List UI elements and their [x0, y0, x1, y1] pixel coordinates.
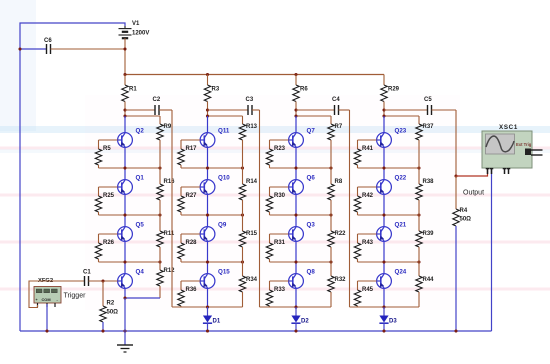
- svg-text:C1: C1: [83, 270, 91, 276]
- svg-text:R39: R39: [423, 231, 435, 237]
- node ground bus junctions: [45, 329, 457, 332]
- svg-text:Q11: Q11: [218, 128, 230, 135]
- resistor R43 (base of Q21): [354, 234, 376, 262]
- resistor R6 (stage feed): [293, 75, 309, 111]
- wire stage1 node row 2: [99, 213, 162, 216]
- resistor R33 (base of Q8): [266, 281, 288, 307]
- transistor Q3: [289, 222, 316, 242]
- svg-text:R23: R23: [274, 146, 286, 152]
- wire XFG2 COM to ground bus (blue): [46, 304, 48, 331]
- wire top-left loop (blue): [20, 23, 125, 331]
- svg-text:C2: C2: [153, 97, 161, 103]
- wire stage1 collector-emitter string: [124, 116, 126, 298]
- resistor R42 (base of Q22): [354, 187, 376, 215]
- resistor R41 (base of Q23): [354, 140, 376, 168]
- svg-text:D1: D1: [213, 319, 221, 325]
- transistor Q24: [377, 269, 407, 289]
- wire stage2 top node: [208, 110, 243, 116]
- wire stage2 bottom node: [172, 305, 243, 308]
- wire R4 to ground bus (blue): [455, 226, 457, 331]
- wire stage1 emitter bottom (blue): [123, 296, 160, 299]
- wire Q4 emitter to ground (blue): [124, 298, 126, 345]
- transistor Q9: [200, 222, 227, 242]
- resistor R30 (base of Q6): [266, 187, 288, 215]
- svg-text:R41: R41: [362, 146, 374, 152]
- svg-text:R13: R13: [246, 124, 258, 130]
- wire C1 to Q4 base: [89, 280, 118, 282]
- diode D1: [203, 307, 221, 331]
- svg-text:V1: V1: [132, 21, 140, 27]
- resistor R1 (stage feed): [122, 75, 138, 111]
- transistor Q5: [118, 222, 145, 242]
- capacitor C5 (output coupling): [384, 97, 456, 176]
- svg-text:Q23: Q23: [395, 128, 407, 135]
- svg-text:R30: R30: [274, 193, 286, 199]
- diode D3: [379, 307, 397, 331]
- wire XFG2 + to C1: [29, 281, 85, 308]
- svg-text:Q7: Q7: [307, 128, 316, 135]
- capacitor C6: [20, 38, 125, 54]
- svg-text:XSC1: XSC1: [499, 124, 518, 131]
- resistor R4 50Ohm (load): [453, 176, 471, 226]
- svg-text:+: +: [36, 298, 38, 302]
- resistor R2 50Ohm (trigger term.): [100, 281, 118, 322]
- svg-text:C4: C4: [332, 97, 340, 103]
- resistor R5 (base of Q2): [95, 140, 117, 168]
- svg-text:Q1: Q1: [136, 175, 145, 182]
- transistor Q6: [289, 175, 316, 195]
- node stage3 top junctions: [294, 108, 297, 117]
- svg-text:R15: R15: [246, 231, 258, 237]
- transistor Q23: [377, 128, 407, 148]
- wire stage3 node row 1: [270, 166, 333, 169]
- wire stage3 top node: [296, 110, 331, 116]
- svg-text:R11: R11: [164, 231, 175, 237]
- wire stage2 node row 2: [181, 213, 244, 216]
- svg-text:R5: R5: [103, 146, 111, 152]
- svg-text:COM: COM: [42, 297, 51, 302]
- svg-text:R7: R7: [335, 124, 343, 130]
- wire stage1 node row 3: [99, 260, 162, 263]
- wire stage4 node row 1: [358, 166, 421, 169]
- oscilloscope XSC1: [482, 124, 543, 174]
- node stage2 top junctions: [206, 108, 209, 117]
- svg-text:C3: C3: [246, 97, 254, 103]
- voltage source V1 1200V: [119, 21, 150, 49]
- wire stage4 node row 2: [358, 213, 421, 216]
- wire stage3 node row 3: [270, 260, 333, 263]
- svg-text:R37: R37: [423, 124, 435, 130]
- svg-text:R44: R44: [423, 277, 435, 283]
- svg-text:Q3: Q3: [307, 222, 316, 229]
- transistor Q10: [200, 175, 230, 195]
- svg-text:R22: R22: [335, 231, 347, 237]
- svg-text:R8: R8: [335, 179, 343, 185]
- svg-text:R25: R25: [103, 193, 115, 199]
- svg-text:Q5: Q5: [136, 222, 145, 229]
- resistor R23 (base of Q7): [266, 140, 288, 168]
- resistor chain R9/R16/R11/R12: [157, 116, 175, 298]
- svg-text:Output: Output: [463, 190, 484, 197]
- wire V1 to bus: [124, 49, 126, 75]
- svg-text:C6: C6: [44, 38, 52, 44]
- wire stage4 top node: [384, 110, 419, 116]
- svg-text:R2: R2: [107, 301, 115, 307]
- svg-text:50Ω: 50Ω: [107, 310, 119, 316]
- diode D2: [291, 307, 309, 331]
- svg-text:R12: R12: [164, 268, 176, 274]
- wire ground bus (blue): [20, 330, 492, 332]
- wire stage4 collector-emitter string: [383, 116, 385, 307]
- transistor Q22: [377, 175, 407, 195]
- resistor chain R7/R8/R22/R32: [328, 116, 346, 307]
- svg-text:R17: R17: [186, 146, 198, 152]
- node stage4 top junctions: [382, 108, 385, 117]
- resistor R26 (base of Q5): [95, 234, 117, 262]
- transistor Q4: [118, 269, 145, 289]
- function generator XFG2: [34, 278, 61, 307]
- svg-text:Q10: Q10: [218, 175, 230, 182]
- svg-text:Q22: Q22: [395, 175, 407, 182]
- transistor Q21: [377, 222, 407, 242]
- wire stage1 top node: [125, 110, 160, 116]
- wire HV bus: [125, 74, 384, 76]
- svg-text:Q4: Q4: [136, 269, 145, 276]
- svg-text:R1: R1: [129, 87, 137, 93]
- svg-text:R42: R42: [362, 193, 374, 199]
- svg-text:Ext Trig: Ext Trig: [516, 142, 532, 147]
- label Output: [463, 190, 484, 197]
- svg-text:Q15: Q15: [218, 269, 230, 276]
- resistor chain R37/R38/R39/R44: [416, 116, 434, 307]
- svg-text:Q24: Q24: [395, 269, 407, 276]
- svg-text:Trigger: Trigger: [64, 293, 87, 300]
- capacitor C1 (trigger coupling): [83, 270, 91, 287]
- svg-text:R45: R45: [362, 287, 374, 293]
- node stage1 top junctions: [123, 108, 126, 117]
- svg-text:R33: R33: [274, 287, 286, 293]
- ground: [117, 345, 133, 352]
- resistor R17 (base of Q11): [178, 140, 200, 168]
- resistor R29 (stage feed): [381, 75, 400, 111]
- wire stage4 bottom node: [350, 305, 420, 308]
- resistor R27 (base of Q10): [178, 187, 200, 215]
- svg-text:R32: R32: [335, 277, 347, 283]
- svg-text:D2: D2: [301, 319, 309, 325]
- wire R2 to ground bus (blue): [102, 322, 104, 331]
- resistor chain R13/R14/R15/R34: [239, 116, 257, 307]
- wire scope A- to ground bus (blue): [491, 169, 493, 332]
- svg-text:C5: C5: [424, 97, 432, 103]
- svg-text:R34: R34: [246, 277, 258, 283]
- resistor R36 (base of Q15): [178, 281, 200, 307]
- resistor R3 (stage feed): [204, 75, 220, 111]
- node output junction: [454, 174, 457, 177]
- svg-text:R4: R4: [460, 208, 468, 214]
- svg-text:R3: R3: [212, 87, 220, 93]
- resistor R31 (base of Q3): [266, 234, 288, 262]
- capacitor C4 (stage coupling): [296, 97, 350, 307]
- svg-text:Q6: Q6: [307, 175, 316, 182]
- wire stage4 node row 3: [358, 260, 421, 263]
- resistor R28 (base of Q9): [178, 234, 200, 262]
- transistor Q7: [289, 128, 316, 148]
- svg-text:Q2: Q2: [136, 128, 145, 135]
- svg-text:R27: R27: [186, 193, 198, 199]
- svg-text:50Ω: 50Ω: [460, 217, 472, 223]
- wire stage1 node row 1: [99, 166, 162, 169]
- svg-text:R9: R9: [164, 124, 172, 130]
- resistor R25 (base of Q1): [95, 187, 117, 215]
- svg-text:R31: R31: [274, 240, 286, 246]
- svg-text:Q9: Q9: [218, 222, 227, 229]
- wire stage2 collector-emitter string: [207, 116, 209, 307]
- svg-text:Q21: Q21: [395, 222, 407, 229]
- node bus taps: [123, 73, 297, 76]
- transistor Q15: [200, 269, 230, 289]
- capacitor C3 (stage coupling): [208, 97, 260, 307]
- node trigger junction: [101, 279, 104, 282]
- wire output to scope A+: [456, 169, 488, 177]
- wire stage3 node row 2: [270, 213, 333, 216]
- wire stage2 node row 1: [181, 166, 244, 169]
- svg-text:Q8: Q8: [307, 269, 316, 276]
- svg-text:R26: R26: [103, 240, 115, 246]
- svg-text:R14: R14: [246, 179, 258, 185]
- svg-text:R16: R16: [164, 179, 176, 185]
- transistor Q1: [118, 175, 145, 195]
- svg-text:R29: R29: [388, 87, 400, 93]
- node V1/C6 junctions: [18, 47, 126, 50]
- svg-text:R43: R43: [362, 240, 374, 246]
- svg-text:R36: R36: [186, 287, 198, 293]
- transistor Q8: [289, 269, 316, 289]
- label Trigger: [64, 293, 87, 300]
- resistor R45 (base of Q24): [354, 281, 376, 307]
- svg-text:R28: R28: [186, 240, 198, 246]
- svg-text:R6: R6: [300, 87, 308, 93]
- wire stage2 node row 3: [181, 260, 244, 263]
- svg-text:1200V: 1200V: [132, 31, 149, 37]
- svg-text:D3: D3: [389, 319, 397, 325]
- wire stage3 collector-emitter string: [295, 116, 297, 307]
- capacitor C2 (stage coupling): [125, 97, 172, 307]
- wire stage3 bottom node: [260, 305, 332, 308]
- transistor Q11: [200, 128, 230, 148]
- svg-text:R38: R38: [423, 179, 435, 185]
- transistor Q2: [118, 128, 145, 148]
